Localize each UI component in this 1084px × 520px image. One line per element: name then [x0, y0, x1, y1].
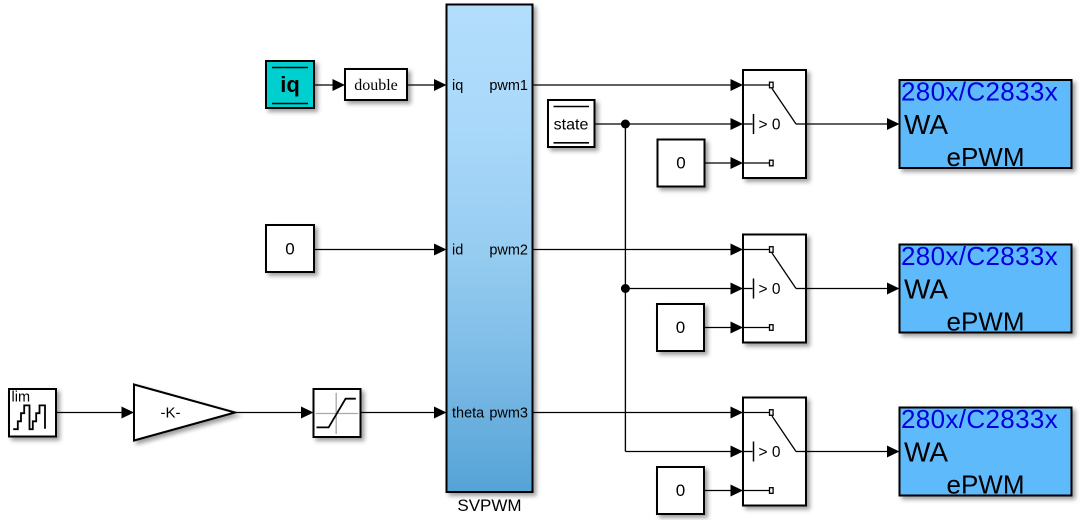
- repeating sequence stair lim: [9, 389, 56, 437]
- svg-text:SVPWM: SVPWM: [457, 496, 521, 515]
- arrowhead into SVPWM theta: [434, 407, 447, 419]
- switch SW1: [743, 70, 806, 178]
- svg-text:theta: theta: [452, 406, 485, 422]
- arrowhead into double: [333, 79, 346, 91]
- arrowhead into switch1 data2: [731, 157, 744, 169]
- wire switch1 to ePWM1: [806, 123, 894, 125]
- svg-text:0: 0: [676, 481, 685, 500]
- wire SVPWM pwm3 to switch3: [533, 412, 739, 414]
- wire branch to switch3 control: [625, 451, 738, 453]
- arrowhead into ePWM3: [887, 446, 900, 458]
- svg-text:state: state: [554, 117, 589, 134]
- arrowhead into SVPWM id: [434, 244, 447, 256]
- arrowhead into switch2 data2: [731, 322, 744, 334]
- constant 0 row2: [657, 304, 704, 351]
- saturation block: [314, 389, 361, 437]
- arrowhead into switch1 control: [731, 118, 744, 130]
- wire state to switch1 control: [595, 123, 739, 125]
- arrowhead into saturation: [301, 407, 314, 419]
- constant 0 row1: [658, 140, 705, 187]
- arrowhead into switch1 data1: [731, 79, 744, 91]
- svg-text:id: id: [452, 243, 463, 259]
- svg-text:0: 0: [285, 240, 294, 259]
- svg-text:ePWM: ePWM: [947, 470, 1025, 500]
- constant 0 (id input): [266, 225, 314, 272]
- svg-text:280x/C2833x: 280x/C2833x: [901, 77, 1058, 107]
- wire saturation to SVPWM theta: [361, 412, 442, 414]
- wire lim to gain: [56, 412, 129, 414]
- wire gain to saturation: [235, 412, 309, 414]
- arrowhead into ePWM1: [887, 118, 900, 130]
- arrowhead into SVPWM iq: [434, 79, 447, 91]
- wire branch to switch2 control: [625, 288, 738, 290]
- svg-text:280x/C2833x: 280x/C2833x: [901, 404, 1058, 434]
- wire SVPWM pwm1 to switch1: [533, 84, 739, 86]
- svg-text:pwm1: pwm1: [489, 78, 528, 94]
- data store read state: [548, 100, 595, 147]
- arrowhead into switch3 data2: [731, 485, 744, 497]
- svg-text:WA: WA: [904, 109, 948, 140]
- svg-text:0: 0: [676, 154, 685, 173]
- wire switch2 to ePWM2: [806, 288, 894, 290]
- data type conversion double: [345, 69, 407, 100]
- data store read iq: [266, 61, 314, 108]
- wire switch3 to ePWM3: [806, 451, 894, 453]
- wire constant0 row3 to switch3: [704, 490, 738, 492]
- wire constant0 row1 to switch1: [705, 162, 739, 164]
- arrowhead into ePWM2: [887, 283, 900, 295]
- svg-text:WA: WA: [904, 274, 948, 305]
- ePWM block 2: [900, 245, 1072, 333]
- wire iq to double: [314, 84, 340, 86]
- svg-text:> 0: > 0: [759, 116, 781, 133]
- arrowhead into switch3 data1: [731, 407, 744, 419]
- svg-text:0: 0: [676, 318, 685, 337]
- switch SW2: [743, 235, 806, 343]
- arrowhead into switch3 control: [731, 446, 744, 458]
- gain -K-: [134, 385, 235, 441]
- svg-text:ePWM: ePWM: [947, 307, 1025, 337]
- svg-text:pwm2: pwm2: [489, 243, 528, 259]
- svg-text:280x/C2833x: 280x/C2833x: [901, 241, 1058, 271]
- svg-text:ePWM: ePWM: [947, 142, 1025, 172]
- svg-text:-K-: -K-: [161, 405, 181, 422]
- arrowhead into switch2 data1: [731, 244, 744, 256]
- junction node row1: [621, 120, 630, 129]
- wire state branch vertical: [624, 124, 626, 452]
- switch SW3: [743, 398, 806, 506]
- svg-text:WA: WA: [904, 437, 948, 468]
- svg-text:iq: iq: [280, 72, 300, 97]
- constant 0 row3: [657, 467, 704, 514]
- svg-text:lim: lim: [12, 390, 31, 406]
- svg-text:pwm3: pwm3: [489, 406, 528, 422]
- svg-text:> 0: > 0: [759, 444, 781, 461]
- junction node row2: [621, 284, 630, 293]
- svg-text:double: double: [354, 77, 398, 94]
- svg-text:> 0: > 0: [759, 281, 781, 298]
- arrowhead into gain: [122, 407, 135, 419]
- wire constant to SVPWM id: [314, 249, 441, 251]
- wire double to SVPWM iq: [407, 84, 441, 86]
- wire SVPWM pwm2 to switch2: [533, 249, 739, 251]
- ePWM block 3: [900, 408, 1072, 496]
- svg-text:iq: iq: [452, 78, 463, 94]
- subsystem SVPWM: [447, 5, 533, 493]
- wire constant0 row2 to switch2: [704, 327, 738, 329]
- ePWM block 1: [900, 80, 1072, 168]
- arrowhead into switch2 control: [731, 283, 744, 295]
